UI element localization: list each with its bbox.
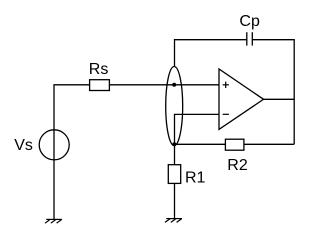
capacitor Cp [247,32,253,45]
shield ellipse [166,67,183,146]
svg-text:R2: R2 [227,157,248,174]
node A [172,83,176,87]
op-amp minus input [223,113,229,115]
ground [45,219,62,223]
wire [174,143,294,145]
resistor R1 [168,165,180,184]
resistor R2 [225,139,244,150]
wire [174,144,176,164]
svg-text:Cp: Cp [239,13,260,30]
wire [252,40,294,145]
op-amp U1 [219,69,264,129]
wire [175,114,220,144]
wire [264,98,295,100]
svg-text:Rs: Rs [89,61,109,78]
ground [165,219,182,223]
wire [175,40,247,66]
node B [172,142,176,146]
wire [54,85,219,220]
svg-text:Vs: Vs [14,137,33,154]
wire [174,183,176,218]
svg-text:R1: R1 [185,169,206,186]
op-amp plus input [223,82,229,88]
source Vs [39,130,69,160]
resistor Rs [90,80,110,91]
